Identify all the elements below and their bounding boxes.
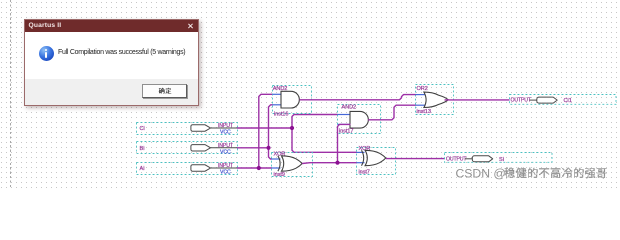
selection box of inst7	[357, 148, 396, 175]
AND2 gate inst16	[281, 91, 299, 108]
selection box of inst16	[273, 86, 312, 114]
XOR gate inst7	[362, 150, 386, 165]
input pin Bi	[137, 142, 238, 156]
junction Bi tee	[266, 146, 270, 150]
svg-text:OUTPUT: OUTPUT	[511, 98, 532, 104]
selection box of inst13	[416, 85, 454, 115]
wire inst16 out to inst13 pin1	[300, 95, 416, 100]
input stub inst17 pin1	[338, 114, 351, 116]
Quartus II message dialog	[24, 19, 199, 106]
wire inst17 out to inst13 pin2	[368, 105, 416, 120]
input stub inst9 pin1	[272, 158, 281, 160]
wire net Bi horizontal	[237, 147, 269, 149]
svg-text:inst7: inst7	[359, 169, 370, 175]
svg-text:inst13: inst13	[417, 109, 431, 115]
input stub inst7 pin2	[357, 162, 365, 164]
svg-text:Ci: Ci	[140, 126, 145, 132]
junction inst9 out tee	[335, 161, 339, 165]
AND2 gate inst17	[350, 111, 368, 128]
input stub inst16 pin2	[273, 104, 282, 106]
wire net Bi up to inst16 pin2	[269, 105, 273, 148]
input stub inst13 pin2	[416, 104, 427, 106]
svg-text:inst17: inst17	[339, 129, 353, 135]
output pin Si	[445, 153, 553, 163]
junction Ci tee	[290, 126, 294, 130]
full adder schematic	[0, 0, 620, 189]
input stub inst13 pin1	[416, 94, 427, 96]
wire inst9 out to inst7 pin2	[302, 162, 356, 165]
wire net Bi down to inst9 pin1	[269, 148, 272, 159]
OK button (&#30830;&#23450;)	[142, 84, 187, 98]
info icon	[39, 46, 54, 61]
input stub inst7 pin1	[357, 151, 365, 153]
wire inst13 out to Ci1	[445, 99, 510, 101]
dialog footer	[25, 79, 198, 105]
svg-text:VCC: VCC	[220, 130, 231, 136]
selection box of inst17	[338, 105, 381, 134]
svg-text:VCC: VCC	[220, 149, 231, 155]
dialog title bar	[25, 20, 198, 33]
OR2 gate inst13	[424, 92, 448, 107]
dialog body	[25, 32, 198, 79]
input pin Ci	[137, 123, 238, 136]
svg-text:Ai: Ai	[140, 166, 145, 172]
wire net Ci down to inst7 pin1	[292, 128, 357, 152]
XOR gate inst9	[278, 156, 302, 171]
wire net Ci up to inst17 pin1	[292, 115, 338, 129]
svg-text:OR2: OR2	[417, 86, 428, 92]
input pin Ai	[137, 163, 238, 176]
watermark chinese glyphs	[505, 168, 515, 179]
wire net Ai up to inst16 pin1	[259, 94, 273, 168]
schematic sheet left border	[10, 0, 11, 189]
selection box of inst9	[272, 153, 313, 177]
junction Ai tee	[257, 166, 261, 170]
svg-text:Ci1: Ci1	[564, 98, 572, 104]
svg-text:OUTPUT: OUTPUT	[446, 156, 467, 162]
svg-text:INPUT: INPUT	[218, 123, 234, 129]
svg-text:Si: Si	[499, 157, 504, 163]
message text	[58, 49, 185, 56]
svg-text:CSDN @: CSDN @	[456, 166, 506, 180]
svg-text:INPUT: INPUT	[218, 163, 234, 169]
wire inst9 out up to inst17 pin2	[338, 124, 351, 162]
svg-text:inst16: inst16	[274, 111, 288, 117]
svg-text:VCC: VCC	[220, 170, 231, 176]
schematic grid dots	[0, 0, 620, 189]
input stub inst17 pin2	[338, 123, 351, 125]
svg-text:AND2: AND2	[342, 105, 357, 111]
svg-text:INPUT: INPUT	[218, 143, 234, 149]
wire inst7 out to Si	[386, 158, 445, 160]
input stub inst9 pin2	[272, 167, 281, 169]
wire net Ci horizontal	[237, 127, 292, 129]
wire net Ai horizontal	[237, 167, 272, 169]
output pin Ci1	[510, 95, 617, 105]
svg-text:Bi: Bi	[140, 146, 145, 152]
input stub inst16 pin1	[273, 93, 282, 95]
svg-text:inst9: inst9	[274, 172, 285, 178]
